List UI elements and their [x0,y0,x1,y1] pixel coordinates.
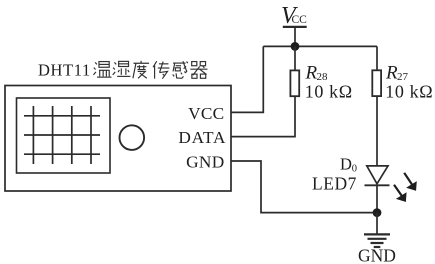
wire VCC pin to VCC rail [231,46,263,112]
resistor R27 body [372,70,381,96]
LED D0 anode triangle [367,166,388,184]
svg-text:LED7: LED7 [312,174,357,194]
label R27 designator [385,62,409,83]
svg-text:10 kΩ: 10 kΩ [305,82,353,102]
wire node to ground symbol [376,213,378,234]
label: title CJK char 温 (wen) [93,62,111,78]
resistor R28 body [290,70,299,96]
wire VCC rail to R27 top [376,46,378,70]
label: title CJK char 传 (chuan) [153,61,169,78]
wire LED cathode to ground node [376,185,378,212]
svg-text:VCC: VCC [188,104,224,123]
node junction on VCC rail [291,42,300,51]
label: title CJK char 器 (qi) [190,62,207,79]
wire VCC rail horizontal [263,45,377,47]
sensor circular vent [120,125,145,150]
label: title CJK char 感 (gan) [173,61,188,78]
wire DATA pin to R28 bottom [231,96,295,136]
label D0 designator [340,155,357,175]
power symbol VCC rail bar [283,27,307,47]
svg-text:D: D [340,155,352,174]
svg-text:CC: CC [292,14,308,26]
label VCC net name [281,3,307,29]
label: title CJK char 湿 (shi) [113,61,131,76]
svg-text:GND: GND [358,246,396,264]
label R28 designator [305,62,329,83]
sensor grid window frame [17,98,111,173]
wire GND pin to ground node [231,161,377,213]
ground symbol [364,234,390,247]
LED cathode bar [365,184,390,186]
sensor module U1 DHT11 body [5,86,231,192]
svg-text:DHT11: DHT11 [38,60,91,79]
LED light arrow 1 [404,173,416,190]
node junction at ground rail [373,208,382,217]
wire R27 bottom to LED anode [376,96,378,166]
svg-text:DATA: DATA [178,128,226,147]
label: title CJK char 度 (du) [133,61,149,78]
sensor grid lines [24,106,100,164]
svg-text:10 kΩ: 10 kΩ [385,81,433,101]
svg-text:GND: GND [186,152,224,171]
LED light arrow 2 [394,185,406,202]
wire VCC node to R28 top [294,46,296,70]
